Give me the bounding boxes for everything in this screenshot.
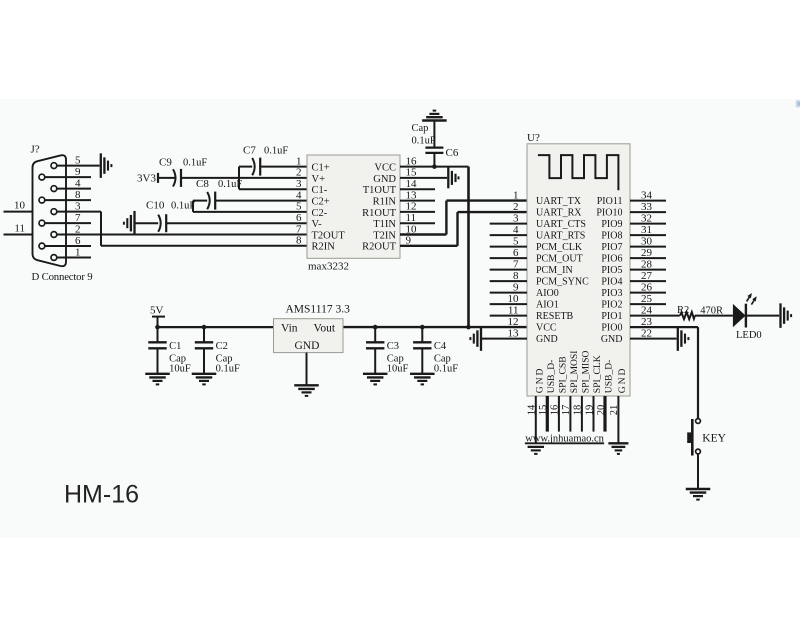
svg-text:PCM_OUT: PCM_OUT: [536, 254, 583, 265]
svg-text:6: 6: [296, 212, 302, 224]
ground at U? pin 21: [608, 443, 628, 454]
capacitor C3 Cap 10uF: [366, 327, 409, 375]
wire J? pin 2 to T2OUT: [57, 234, 307, 236]
website label www.jnhuamao.cn: [525, 434, 605, 445]
svg-text:AIO1: AIO1: [536, 300, 559, 311]
wire UART_TX to T2IN: [400, 201, 527, 235]
svg-text:0.1uF: 0.1uF: [218, 179, 242, 190]
svg-text:R1OUT: R1OUT: [362, 208, 396, 219]
wire C1- branch (pin 3): [239, 167, 307, 190]
wire J? pin 3 to R2IN: [57, 212, 307, 246]
capacitor C9 0.1uF: [159, 157, 207, 187]
U? left pin names: [536, 196, 589, 345]
junction C1: [155, 325, 160, 330]
svg-text:8: 8: [75, 189, 81, 201]
U1 right stub wires pins 14,13,12,11: [400, 189, 435, 223]
svg-text:11: 11: [14, 223, 25, 235]
power port 3V3: [137, 173, 158, 185]
wire C9 to V+ pin 2: [181, 177, 307, 179]
svg-text:PIO8: PIO8: [601, 231, 622, 242]
ground at U? pin 14: [528, 447, 544, 454]
ground under C1: [145, 374, 170, 385]
svg-text:max3232: max3232: [308, 261, 349, 273]
svg-text:PCM_CLK: PCM_CLK: [536, 242, 583, 253]
wire C7 to C1+ pin 1: [260, 166, 307, 168]
IC U? bluetooth module body: [527, 144, 630, 396]
svg-text:J?: J?: [31, 144, 40, 156]
svg-text:R2: R2: [677, 305, 689, 316]
svg-text:PIO3: PIO3: [601, 288, 622, 299]
svg-text:AIO0: AIO0: [536, 288, 559, 299]
J? pin stub wires: [45, 177, 91, 257]
svg-text:0.1uF: 0.1uF: [434, 364, 458, 375]
wire 3V3 to C9: [158, 177, 176, 179]
junction C4: [420, 325, 425, 330]
blue icon fragment at right edge: [796, 100, 800, 108]
wire branch to C7: [239, 166, 252, 168]
junction 3.3V rail: [466, 325, 471, 330]
svg-text:10uF: 10uF: [387, 364, 409, 375]
svg-text:8: 8: [296, 235, 302, 247]
wire branch to C8: [193, 200, 207, 202]
svg-text:C6: C6: [446, 147, 459, 159]
svg-text:T2IN: T2IN: [373, 230, 396, 241]
svg-text:SPI_MISO: SPI_MISO: [581, 350, 592, 393]
U1 right pin names: [362, 163, 396, 253]
capacitor C8 0.1uF: [196, 178, 242, 210]
IC U1 max3232 body: [307, 155, 400, 258]
wire 5V rail left: [158, 326, 274, 328]
svg-text:C1: C1: [169, 341, 181, 352]
svg-text:5V: 5V: [150, 305, 164, 317]
svg-text:2: 2: [513, 201, 519, 213]
power port 5V: [150, 305, 165, 328]
wire U? pin 22 GND lead: [630, 338, 677, 340]
svg-text:UART_RTS: UART_RTS: [536, 231, 585, 242]
U? right pin numbers 34-22: [641, 189, 653, 339]
svg-text:3: 3: [75, 200, 81, 212]
svg-text:30: 30: [641, 235, 653, 247]
svg-text:USB_D-: USB_D-: [604, 360, 615, 394]
svg-text:C3: C3: [387, 341, 399, 352]
wire VCC pin 16 to 3.3V node: [400, 166, 469, 168]
svg-text:0.1uF: 0.1uF: [183, 158, 207, 169]
svg-text:12: 12: [508, 316, 519, 328]
svg-text:R2OUT: R2OUT: [362, 242, 396, 253]
svg-text:VCC: VCC: [374, 163, 396, 174]
svg-text:SPI_MOSI: SPI_MOSI: [569, 351, 580, 394]
svg-text:V+: V+: [312, 174, 326, 185]
wire UART_RX to R2OUT: [400, 212, 527, 246]
svg-text:PIO0: PIO0: [601, 323, 622, 334]
junction C3: [373, 325, 378, 330]
switch KEY: [687, 419, 726, 456]
svg-text:2: 2: [296, 167, 302, 179]
wire KEY to ground: [697, 454, 699, 489]
svg-text:C2+: C2+: [312, 197, 330, 208]
svg-text:SPI_CSB: SPI_CSB: [558, 356, 569, 393]
U? left stub wires pins 3-11: [490, 224, 527, 316]
svg-text:3: 3: [296, 178, 302, 190]
wire R2 to LED0: [695, 315, 733, 317]
svg-text:AMS1117 3.3: AMS1117 3.3: [286, 304, 351, 316]
svg-text:4: 4: [296, 189, 302, 201]
ground at J? pin 5: [101, 153, 112, 178]
ground at U1 pin 15: [448, 168, 458, 189]
svg-text:LED0: LED0: [736, 330, 762, 341]
svg-text:5: 5: [513, 235, 519, 247]
wire C6 lower lead: [433, 153, 435, 167]
svg-text:C8: C8: [196, 178, 209, 190]
svg-text:33: 33: [641, 201, 653, 213]
svg-text:PIO10: PIO10: [596, 208, 622, 219]
resistor R2 470R: [677, 305, 723, 319]
svg-text:T1IN: T1IN: [373, 219, 396, 230]
ground at U? pin 13: [470, 326, 481, 351]
wire PIO1 to R2: [630, 315, 680, 317]
svg-text:C10: C10: [146, 200, 165, 212]
capacitor C7 0.1uF: [243, 145, 288, 176]
svg-text:C2-: C2-: [312, 208, 328, 219]
LED LED0: [733, 293, 762, 341]
wire C10 to V- pin 6: [166, 222, 307, 224]
U? bottom pin wires 14-21: [536, 396, 619, 443]
svg-text:UART_TX: UART_TX: [536, 196, 582, 207]
wire J? pin 5 to ground: [57, 165, 100, 167]
ground under C2: [192, 374, 217, 385]
svg-text:C4: C4: [434, 341, 447, 352]
svg-text:C1-: C1-: [312, 185, 328, 196]
svg-text:C9: C9: [159, 157, 172, 169]
U? antenna symbol: [538, 155, 619, 190]
ground at U? pin 22: [678, 326, 689, 351]
wire C6 upper lead: [433, 121, 435, 148]
svg-text:0.1uF: 0.1uF: [264, 146, 288, 157]
wire U? pin 13 GND lead: [481, 338, 527, 340]
junction at C6 tap: [432, 164, 437, 169]
svg-text:1: 1: [296, 155, 302, 167]
ground under AMS1117: [294, 385, 319, 396]
svg-text:PIO1: PIO1: [601, 311, 622, 322]
svg-text:SPI_CLK: SPI_CLK: [592, 355, 603, 393]
svg-text:GND: GND: [536, 334, 558, 345]
U1 left pin numbers 1-8: [296, 155, 302, 246]
U? right pin names: [596, 196, 622, 345]
capacitor C2 Cap 0.1uF: [195, 327, 240, 375]
capacitor C4 Cap 0.1uF: [413, 327, 458, 375]
svg-text:5: 5: [75, 154, 81, 166]
svg-text:0.1uF: 0.1uF: [412, 136, 436, 147]
svg-text:U?: U?: [527, 132, 540, 144]
svg-text:R2IN: R2IN: [312, 242, 336, 253]
ground under KEY: [686, 489, 711, 500]
svg-text:16: 16: [406, 155, 418, 167]
svg-text:V-: V-: [312, 219, 323, 230]
U1 right pin numbers 16-9: [406, 155, 418, 246]
svg-text:3: 3: [513, 212, 519, 224]
svg-text:Vout: Vout: [314, 323, 336, 335]
svg-text:1: 1: [513, 189, 519, 201]
svg-text:VCC: VCC: [536, 323, 557, 334]
svg-text:UART_RX: UART_RX: [536, 208, 582, 219]
svg-text:0.1uF: 0.1uF: [171, 201, 195, 212]
U? bottom pin names (rotated): [534, 350, 628, 393]
svg-text:C1+: C1+: [312, 163, 330, 174]
svg-text:13: 13: [406, 189, 418, 201]
ground at LED0: [781, 303, 792, 328]
svg-text:PIO9: PIO9: [601, 219, 622, 230]
U? right stub wires pins 34-25: [630, 201, 666, 305]
svg-text:PIO11: PIO11: [597, 196, 623, 207]
wire 3.3V rail right: [343, 326, 527, 328]
wire 3.3V vertical to rail: [467, 167, 470, 328]
svg-text:10: 10: [14, 200, 26, 212]
svg-text:3V3: 3V3: [137, 173, 156, 185]
capacitor C10 0.1uF: [146, 200, 195, 233]
ground above C6: [422, 111, 447, 121]
wire PIO0 to KEY: [630, 327, 698, 419]
svg-text:KEY: KEY: [702, 432, 726, 444]
svg-text:32: 32: [641, 212, 652, 224]
schematic image background band: [0, 99, 800, 538]
net 10 label and wire: [4, 200, 33, 212]
svg-text:R1IN: R1IN: [373, 197, 397, 208]
svg-text:Vin: Vin: [281, 323, 298, 335]
J? pin numbers 5,9,4,8,3,7,2,6,1: [75, 154, 81, 258]
svg-text:PIO5: PIO5: [601, 265, 622, 276]
svg-text:7: 7: [296, 223, 302, 235]
svg-text:4: 4: [75, 177, 81, 189]
net 11 label and wire: [4, 223, 33, 235]
svg-text:PCM_IN: PCM_IN: [536, 265, 573, 276]
capacitor C1 Cap 10uF: [148, 327, 191, 375]
svg-text:5: 5: [296, 201, 302, 213]
svg-text:PIO4: PIO4: [601, 277, 622, 288]
svg-text:Cap: Cap: [412, 123, 429, 134]
regulator U2 AMS1117 3.3: [274, 304, 351, 353]
wire GND pin 15 to ground: [400, 177, 447, 179]
svg-text:10uF: 10uF: [169, 364, 191, 375]
svg-text:C7: C7: [243, 145, 256, 157]
svg-text:RESETB: RESETB: [536, 311, 574, 322]
svg-text:34: 34: [641, 189, 653, 201]
svg-text:31: 31: [641, 224, 652, 236]
svg-text:7: 7: [75, 212, 81, 224]
svg-text:UART_CTS: UART_CTS: [536, 219, 586, 230]
svg-text:C2: C2: [216, 341, 228, 352]
U1 left pin names: [312, 163, 346, 253]
svg-text:9: 9: [75, 166, 81, 178]
junction C2: [202, 325, 207, 330]
wire ground to C10: [135, 222, 159, 224]
ground under C3: [363, 374, 388, 385]
svg-text:PIO7: PIO7: [601, 242, 622, 253]
svg-text:HM-16: HM-16: [64, 481, 139, 509]
svg-text:D Connector 9: D Connector 9: [32, 271, 93, 283]
capacitor C6 Cap 0.1uF: [412, 123, 459, 159]
svg-text:T1OUT: T1OUT: [363, 185, 397, 196]
wire LED0 to ground: [746, 315, 779, 317]
wire C8 to C2+ pin 4: [215, 200, 307, 202]
svg-text:T2OUT: T2OUT: [312, 230, 346, 241]
svg-text:0.1uF: 0.1uF: [216, 364, 240, 375]
svg-text:USB_D-: USB_D-: [546, 360, 557, 394]
U? bottom pin numbers 14-21 (rotated): [527, 404, 621, 415]
svg-text:GND: GND: [534, 367, 545, 394]
svg-text:PCM_SYNC: PCM_SYNC: [536, 277, 589, 288]
svg-text:PIO6: PIO6: [601, 254, 622, 265]
svg-text:GND: GND: [601, 334, 623, 345]
U? left pin numbers 1-13: [508, 189, 520, 339]
svg-text:GND: GND: [617, 367, 628, 394]
ground under C4: [410, 374, 435, 385]
ground at C10: [124, 211, 135, 236]
wire C2- branch (pin 5): [193, 201, 307, 212]
wire AMS1117 GND lead: [306, 353, 308, 385]
svg-text:PIO2: PIO2: [601, 300, 622, 311]
svg-text:GND: GND: [373, 174, 396, 185]
svg-text:GND: GND: [295, 340, 320, 352]
connector J? (D Connector 9) body: [33, 155, 67, 266]
svg-text:4: 4: [513, 224, 519, 236]
